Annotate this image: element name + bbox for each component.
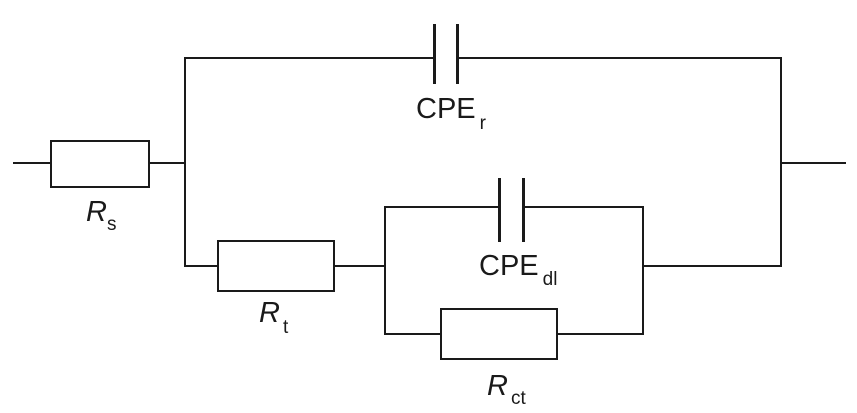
wire right lead (781, 162, 846, 164)
svg-text:Rs: Rs (86, 196, 116, 235)
wire bottom branch to Rt (184, 265, 218, 267)
capacitor CPEdl left plate (498, 178, 501, 242)
wire inner top right (523, 206, 644, 208)
capacitor CPEr left plate (433, 24, 436, 84)
wire left vertical branch (184, 57, 186, 267)
wire inner bottom right (556, 333, 644, 335)
wire inner left vertical (384, 206, 386, 335)
wire inner bottom left (384, 333, 442, 335)
wire inner top left (384, 206, 500, 208)
capacitor CPEdl right plate (522, 178, 525, 242)
capacitor CPEr right plate (456, 24, 459, 84)
resistor Rct (441, 309, 557, 359)
wire inner right vertical (642, 206, 644, 335)
wire top branch right (457, 57, 782, 59)
wire Rs to left node (149, 162, 186, 164)
svg-text:CPEdl: CPEdl (479, 250, 557, 290)
wire Rt to inner parallel group (334, 265, 386, 267)
resistor Rs (51, 141, 149, 187)
wire right vertical branch (780, 57, 782, 267)
wire top branch left (184, 57, 435, 59)
svg-text:CPEr: CPEr (416, 93, 487, 134)
resistor Rt (218, 241, 334, 291)
wire left lead (13, 162, 51, 164)
wire bottom branch exit (643, 265, 782, 267)
svg-text:Rt: Rt (259, 297, 289, 338)
svg-text:Rct: Rct (487, 370, 526, 409)
